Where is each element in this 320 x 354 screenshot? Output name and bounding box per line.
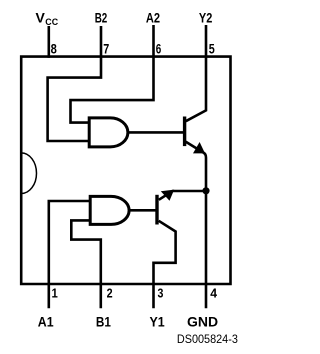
svg-text:5: 5 bbox=[209, 40, 215, 56]
svg-text:7: 7 bbox=[103, 40, 109, 56]
svg-text:8: 8 bbox=[51, 40, 57, 56]
svg-text:GND: GND bbox=[187, 314, 218, 330]
svg-text:DS005824-3: DS005824-3 bbox=[177, 332, 238, 346]
svg-text:B1: B1 bbox=[96, 314, 111, 330]
svg-text:V: V bbox=[36, 10, 46, 26]
svg-text:6: 6 bbox=[156, 40, 162, 56]
svg-text:A1: A1 bbox=[38, 314, 54, 330]
svg-text:CC: CC bbox=[45, 17, 58, 27]
svg-text:Y1: Y1 bbox=[150, 314, 165, 330]
svg-text:3: 3 bbox=[158, 285, 164, 300]
svg-text:A2: A2 bbox=[146, 10, 160, 26]
svg-text:Y2: Y2 bbox=[199, 10, 213, 26]
svg-text:2: 2 bbox=[107, 285, 113, 300]
svg-text:1: 1 bbox=[52, 285, 58, 300]
svg-text:4: 4 bbox=[210, 285, 218, 300]
svg-text:B2: B2 bbox=[95, 10, 108, 26]
